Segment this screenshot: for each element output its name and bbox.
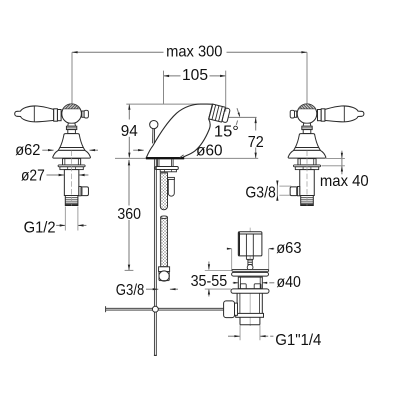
stem ball xyxy=(247,265,253,271)
svg-text:35-55: 35-55 xyxy=(191,273,228,290)
svg-text:105: 105 xyxy=(182,67,208,84)
waste body ø40 xyxy=(238,277,262,289)
extension line 105 right xyxy=(225,71,227,112)
extension lines 35-55 xyxy=(205,270,232,289)
waste body rim xyxy=(236,313,264,317)
svg-text:ø62: ø62 xyxy=(15,142,40,159)
svg-text:72: 72 xyxy=(248,134,264,151)
dimension ø60 (spout base) xyxy=(133,143,222,160)
label 15 deg (aerator angle) xyxy=(214,108,257,140)
hot water valve (left, G1/2) xyxy=(15,104,91,206)
dimension 94 (spout height) xyxy=(121,104,138,158)
svg-text:ø40: ø40 xyxy=(277,274,301,291)
waste knob ø63 xyxy=(238,232,262,260)
dimension max 40 (valve deck thickness) xyxy=(320,151,369,190)
mounting nut xyxy=(160,170,176,172)
svg-text:360: 360 xyxy=(117,206,141,223)
dimension 105 (spout projection) xyxy=(164,67,226,84)
cold water valve (right, G3/8) xyxy=(288,104,364,206)
dimension G3/8 (hose nut) xyxy=(116,282,178,299)
dimension ø27 (valve body) xyxy=(21,167,88,184)
dimension G1/2 (valve thread) xyxy=(24,219,87,236)
spout body outline xyxy=(146,104,212,157)
waste tailpiece G1"1/4 xyxy=(240,317,260,324)
svg-text:G1/2: G1/2 xyxy=(24,219,56,236)
dimension 360 (hose length) xyxy=(117,160,141,271)
spout base bottom edge (thick) xyxy=(146,155,184,158)
mounting washer xyxy=(155,167,178,170)
waste top plate xyxy=(232,269,269,271)
svg-text:ø63: ø63 xyxy=(276,240,301,257)
svg-text:max 40: max 40 xyxy=(320,173,369,190)
dimension ø63 (waste flange) xyxy=(227,240,302,257)
extension lines ø63 xyxy=(232,249,269,273)
svg-text:G1"1/4: G1"1/4 xyxy=(275,332,321,349)
deck surface line xyxy=(115,157,258,159)
extension lines max 40 xyxy=(322,158,345,165)
svg-text:94: 94 xyxy=(121,123,138,140)
extension lines G1/2 xyxy=(65,207,78,231)
waste centreline xyxy=(249,228,251,326)
dimension ø40 (waste body) xyxy=(233,274,301,291)
waste flange ø63 xyxy=(232,272,269,276)
extension lines G3/8 right xyxy=(279,186,291,195)
shank below deck xyxy=(157,159,173,166)
threaded stud (hatched) xyxy=(160,173,167,210)
extension line left (to hot valve centre) xyxy=(71,52,73,108)
svg-text:15°: 15° xyxy=(214,124,239,141)
svg-text:G3/8: G3/8 xyxy=(245,185,275,202)
flexible hose (hatched) xyxy=(161,216,168,267)
waste lower body xyxy=(237,293,262,313)
pop-up rod upper tube xyxy=(168,177,175,196)
extension lines G1"1/4 xyxy=(240,325,260,340)
extension line 105 left xyxy=(163,71,165,104)
svg-text:G3/8: G3/8 xyxy=(116,282,145,299)
aerator (15 deg tilted rings) xyxy=(209,104,231,123)
dimension G1"1/4 (waste tail thread) xyxy=(228,332,321,349)
extension line 94 top xyxy=(126,103,199,105)
dimension 72 (spout outlet height) xyxy=(248,117,264,158)
svg-text:ø27: ø27 xyxy=(21,167,45,184)
dimension ø62 (valve escutcheon) xyxy=(15,142,98,159)
hose nut G3/8 xyxy=(159,267,170,281)
dimension 35-55 (deck thickness) xyxy=(191,262,228,297)
pop-up vertical rod xyxy=(154,159,157,355)
svg-text:max 300: max 300 xyxy=(166,43,222,60)
pop-up horizontal rod xyxy=(106,306,224,312)
knob stem xyxy=(248,259,252,264)
rod joint xyxy=(152,306,158,312)
dimension G3/8 (valve inlet) xyxy=(245,181,278,202)
extension line right (to cold valve centre) xyxy=(306,52,308,108)
waste bottom flange xyxy=(231,289,269,293)
rod clevis nut xyxy=(224,301,238,318)
pop-up knob on spout xyxy=(150,120,158,143)
dimension max 300 (top horizontal) xyxy=(72,43,307,60)
